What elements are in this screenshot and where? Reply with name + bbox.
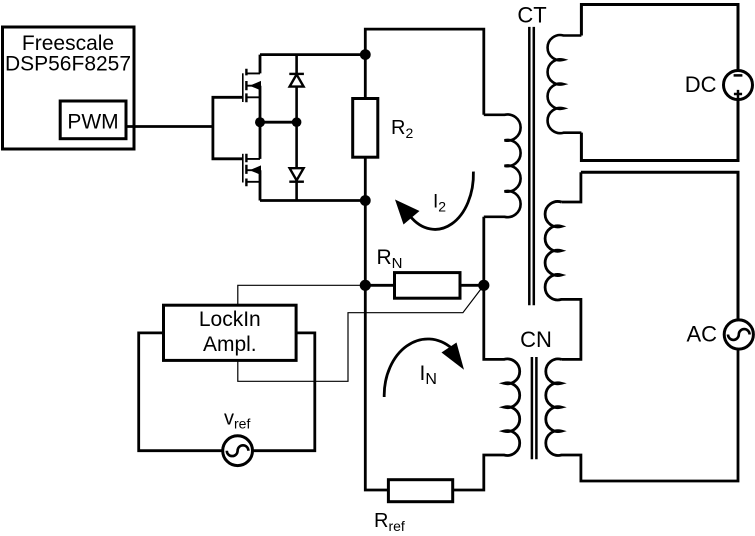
- lock-in amplifier box: [164, 305, 297, 360]
- source DC: [724, 71, 753, 100]
- node RN right: [478, 280, 489, 291]
- svg-text:AC: AC: [686, 322, 717, 347]
- node RN left: [360, 280, 371, 291]
- controller box U1 Freescale DSP56F8257: [3, 27, 135, 149]
- resistor R2: [353, 55, 378, 201]
- PWM block: [60, 101, 126, 139]
- diode D1 (upper freewheeling, pointing up): [289, 74, 304, 87]
- svg-text:CT: CT: [517, 3, 546, 28]
- AC load box top edge and right edge: [581, 172, 738, 320]
- wire top rail: [260, 53, 365, 56]
- resistor Rref: [388, 480, 452, 502]
- svg-text:RN: RN: [377, 246, 403, 272]
- svg-text:IN: IN: [420, 362, 437, 388]
- sense wire RN left node to lock-in top: [238, 285, 365, 305]
- AC load box left edge with winding stubs: [561, 172, 581, 202]
- node half-bridge midpoint: [255, 117, 265, 127]
- transformer CN lower secondary winding: [546, 349, 738, 481]
- diode D2 (lower freewheeling, pointing down): [289, 168, 304, 182]
- svg-text:I2: I2: [433, 192, 446, 215]
- source AC: [724, 320, 753, 349]
- wire diode branch vertical: [295, 55, 298, 201]
- svg-text:DC: DC: [685, 72, 717, 97]
- svg-text:Ampl.: Ampl.: [203, 333, 257, 356]
- sense wire RN right node to lock-in bottom: [238, 285, 484, 381]
- transformer CN primary winding with connecting wires: [453, 285, 520, 490]
- transistor Q2 (low-side MOSFET): [243, 122, 261, 201]
- transistor Q1 (high-side MOSFET): [243, 55, 261, 122]
- svg-text:CN: CN: [520, 327, 552, 352]
- current arrow IN: [384, 339, 464, 397]
- resistor RN: [365, 273, 484, 299]
- wire bottom rail node down to Rref: [365, 201, 388, 491]
- transformer CT primary winding: [484, 114, 521, 217]
- transformer CN upper secondary winding: [545, 201, 581, 359]
- wire bottom rail: [260, 199, 365, 202]
- svg-text:vref: vref: [224, 408, 250, 432]
- wire jumper node to CT primary: [365, 29, 484, 115]
- svg-text:Rref: Rref: [374, 510, 405, 534]
- svg-text:PWM: PWM: [67, 111, 118, 134]
- wire gate drive bracket: [213, 97, 243, 159]
- DC load box: [581, 5, 738, 161]
- node top rail: [360, 49, 371, 60]
- current arrow I2: [395, 172, 473, 230]
- node bottom rail: [360, 195, 371, 206]
- wire half-bridge midpoint to diode midpoint: [260, 121, 297, 124]
- node diode chain midpoint: [292, 117, 302, 127]
- svg-text:DSP56F8257: DSP56F8257: [5, 53, 131, 76]
- source vref: [223, 436, 253, 466]
- wire PWM output to gate bracket: [126, 125, 213, 128]
- svg-text:LockIn: LockIn: [199, 308, 261, 331]
- wire vref reference loop: [139, 333, 315, 451]
- svg-text:R2: R2: [391, 117, 413, 141]
- transformer CT core: [529, 27, 534, 305]
- transformer CN core: [532, 357, 537, 459]
- wire CT primary to RN right node: [482, 217, 485, 285]
- transformer CT secondary winding: [548, 35, 582, 133]
